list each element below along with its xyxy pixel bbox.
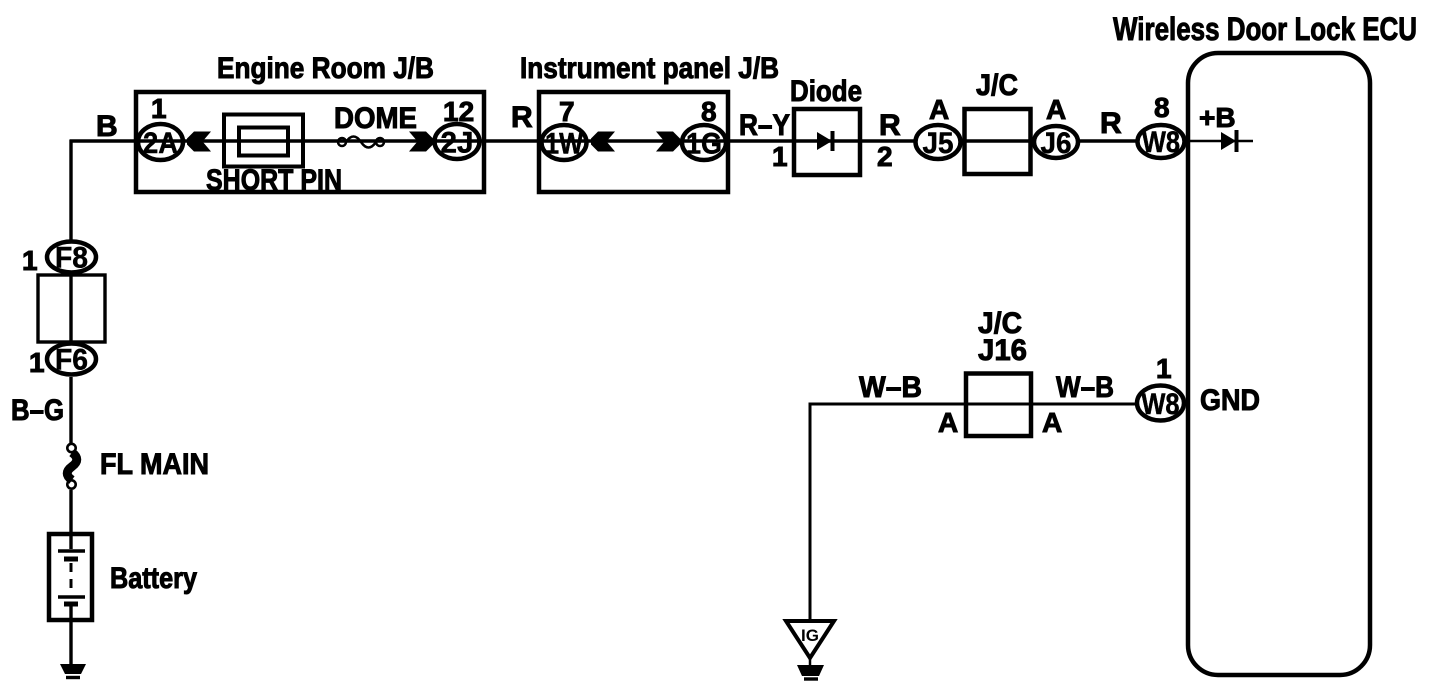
svg-text:W8: W8 (1142, 126, 1180, 159)
svg-text:A: A (929, 94, 949, 125)
connector 2J (435, 124, 480, 160)
connector F8 (47, 242, 96, 275)
svg-text:J5: J5 (923, 127, 954, 160)
svg-text:R–Y: R–Y (739, 109, 790, 142)
fusible link block (38, 275, 105, 342)
wire: through fusible link block (69, 275, 72, 342)
svg-text:8: 8 (701, 96, 717, 127)
svg-text:2: 2 (877, 141, 893, 172)
svg-text:R: R (1100, 107, 1122, 140)
svg-text:FL MAIN: FL MAIN (100, 448, 209, 481)
svg-text:Battery: Battery (110, 562, 197, 595)
wire: diode to J5, label R (860, 139, 915, 142)
wire: FL MAIN to battery (69, 490, 72, 534)
svg-text:1G: 1G (686, 128, 722, 161)
svg-text:A: A (1042, 407, 1062, 438)
ground IG triangle (786, 621, 834, 658)
ground (battery) (60, 664, 86, 678)
svg-text:B–G: B–G (11, 394, 64, 427)
diode D box (794, 109, 860, 175)
Wireless Door Lock ECU body (1188, 53, 1370, 675)
svg-text:B: B (96, 110, 118, 143)
arrow into 2J (points right) (409, 132, 433, 152)
short pin (inner box) (239, 128, 288, 156)
svg-text:1: 1 (29, 347, 45, 378)
svg-text:A: A (1046, 94, 1066, 125)
wire: 2J to 1W, label R (484, 139, 540, 142)
svg-text:Diode: Diode (790, 75, 862, 108)
junction connector J/C box (top) (965, 109, 1031, 174)
connector W8 (GND) (1137, 386, 1184, 422)
fusible link FL MAIN symbol (67, 444, 77, 489)
svg-text:W–B: W–B (859, 371, 922, 404)
wire: IG triangle apex stem (809, 655, 812, 666)
svg-text:1: 1 (151, 93, 167, 124)
battery box (49, 534, 92, 620)
wire: top horizontal from corner to connector 2A (70, 139, 138, 142)
wire: through Instrument panel J/B (540, 139, 730, 142)
svg-text:2A: 2A (143, 127, 178, 160)
svg-text:1: 1 (772, 141, 788, 172)
svg-text:R: R (879, 109, 901, 142)
Engine Room J/B box (136, 92, 484, 192)
svg-text:W–B: W–B (1056, 371, 1114, 404)
svg-text:IG: IG (801, 626, 819, 645)
svg-text:Engine Room J/B: Engine Room J/B (217, 52, 434, 85)
svg-text:GND: GND (1200, 384, 1260, 417)
svg-text:+B: +B (1199, 102, 1236, 133)
connector J5 (916, 125, 961, 160)
svg-text:F6: F6 (55, 344, 88, 377)
svg-text:DOME: DOME (334, 102, 417, 135)
svg-text:J6: J6 (1041, 127, 1072, 160)
wire: battery to ground (69, 620, 72, 665)
connector 2A (138, 124, 183, 160)
connector F6 (47, 344, 96, 377)
connector W8 (+B) (1138, 125, 1185, 159)
arrow into 2A (points left) (187, 132, 211, 152)
svg-text:1: 1 (22, 245, 38, 276)
diode inside ECU at +B (1221, 130, 1237, 152)
svg-text:F8: F8 (55, 242, 88, 275)
wire: through Engine Room J/B (137, 139, 484, 142)
svg-text:R: R (511, 101, 533, 134)
svg-text:J/C: J/C (976, 69, 1018, 102)
wire: +B stub inside ECU (1188, 140, 1253, 143)
wire: F6 down to FL MAIN (69, 377, 72, 444)
svg-text:J16: J16 (978, 334, 1027, 367)
wire: J6 to W8, label R (1080, 139, 1137, 142)
svg-text:2J: 2J (441, 127, 474, 160)
wire: through J/C box (962, 139, 1034, 142)
connector J6 (1034, 126, 1078, 160)
connector 1W (542, 125, 587, 161)
svg-text:A: A (938, 407, 958, 438)
fuse DOME symbol (338, 137, 384, 148)
arrow before 1G (points right) (656, 132, 680, 152)
svg-text:1: 1 (1156, 353, 1172, 384)
Instrument panel J/B box (539, 92, 728, 192)
wire: 1G to diode, label R-Y (728, 139, 794, 142)
arrow after 1W (points left) (591, 132, 615, 152)
svg-text:W8: W8 (1142, 388, 1180, 421)
junction connector J16 box (966, 374, 1031, 437)
svg-text:8: 8 (1154, 92, 1170, 123)
diode D symbol (817, 131, 833, 151)
svg-text:SHORT PIN: SHORT PIN (206, 164, 342, 197)
svg-text:Wireless Door Lock ECU: Wireless Door Lock ECU (1113, 11, 1417, 47)
battery internals (58, 534, 85, 620)
short pin (outer box) (224, 115, 303, 167)
wire: through diode box (794, 139, 862, 142)
svg-text:7: 7 (559, 96, 575, 127)
connector 1G (682, 125, 726, 161)
wire: battery feed B, vertical left segment (69, 140, 72, 243)
svg-text:1W: 1W (545, 128, 583, 161)
svg-text:Instrument panel J/B: Instrument panel J/B (520, 52, 779, 85)
wire: bottom horizontal W-B run (810, 404, 1136, 621)
ground (IG) (797, 665, 824, 679)
